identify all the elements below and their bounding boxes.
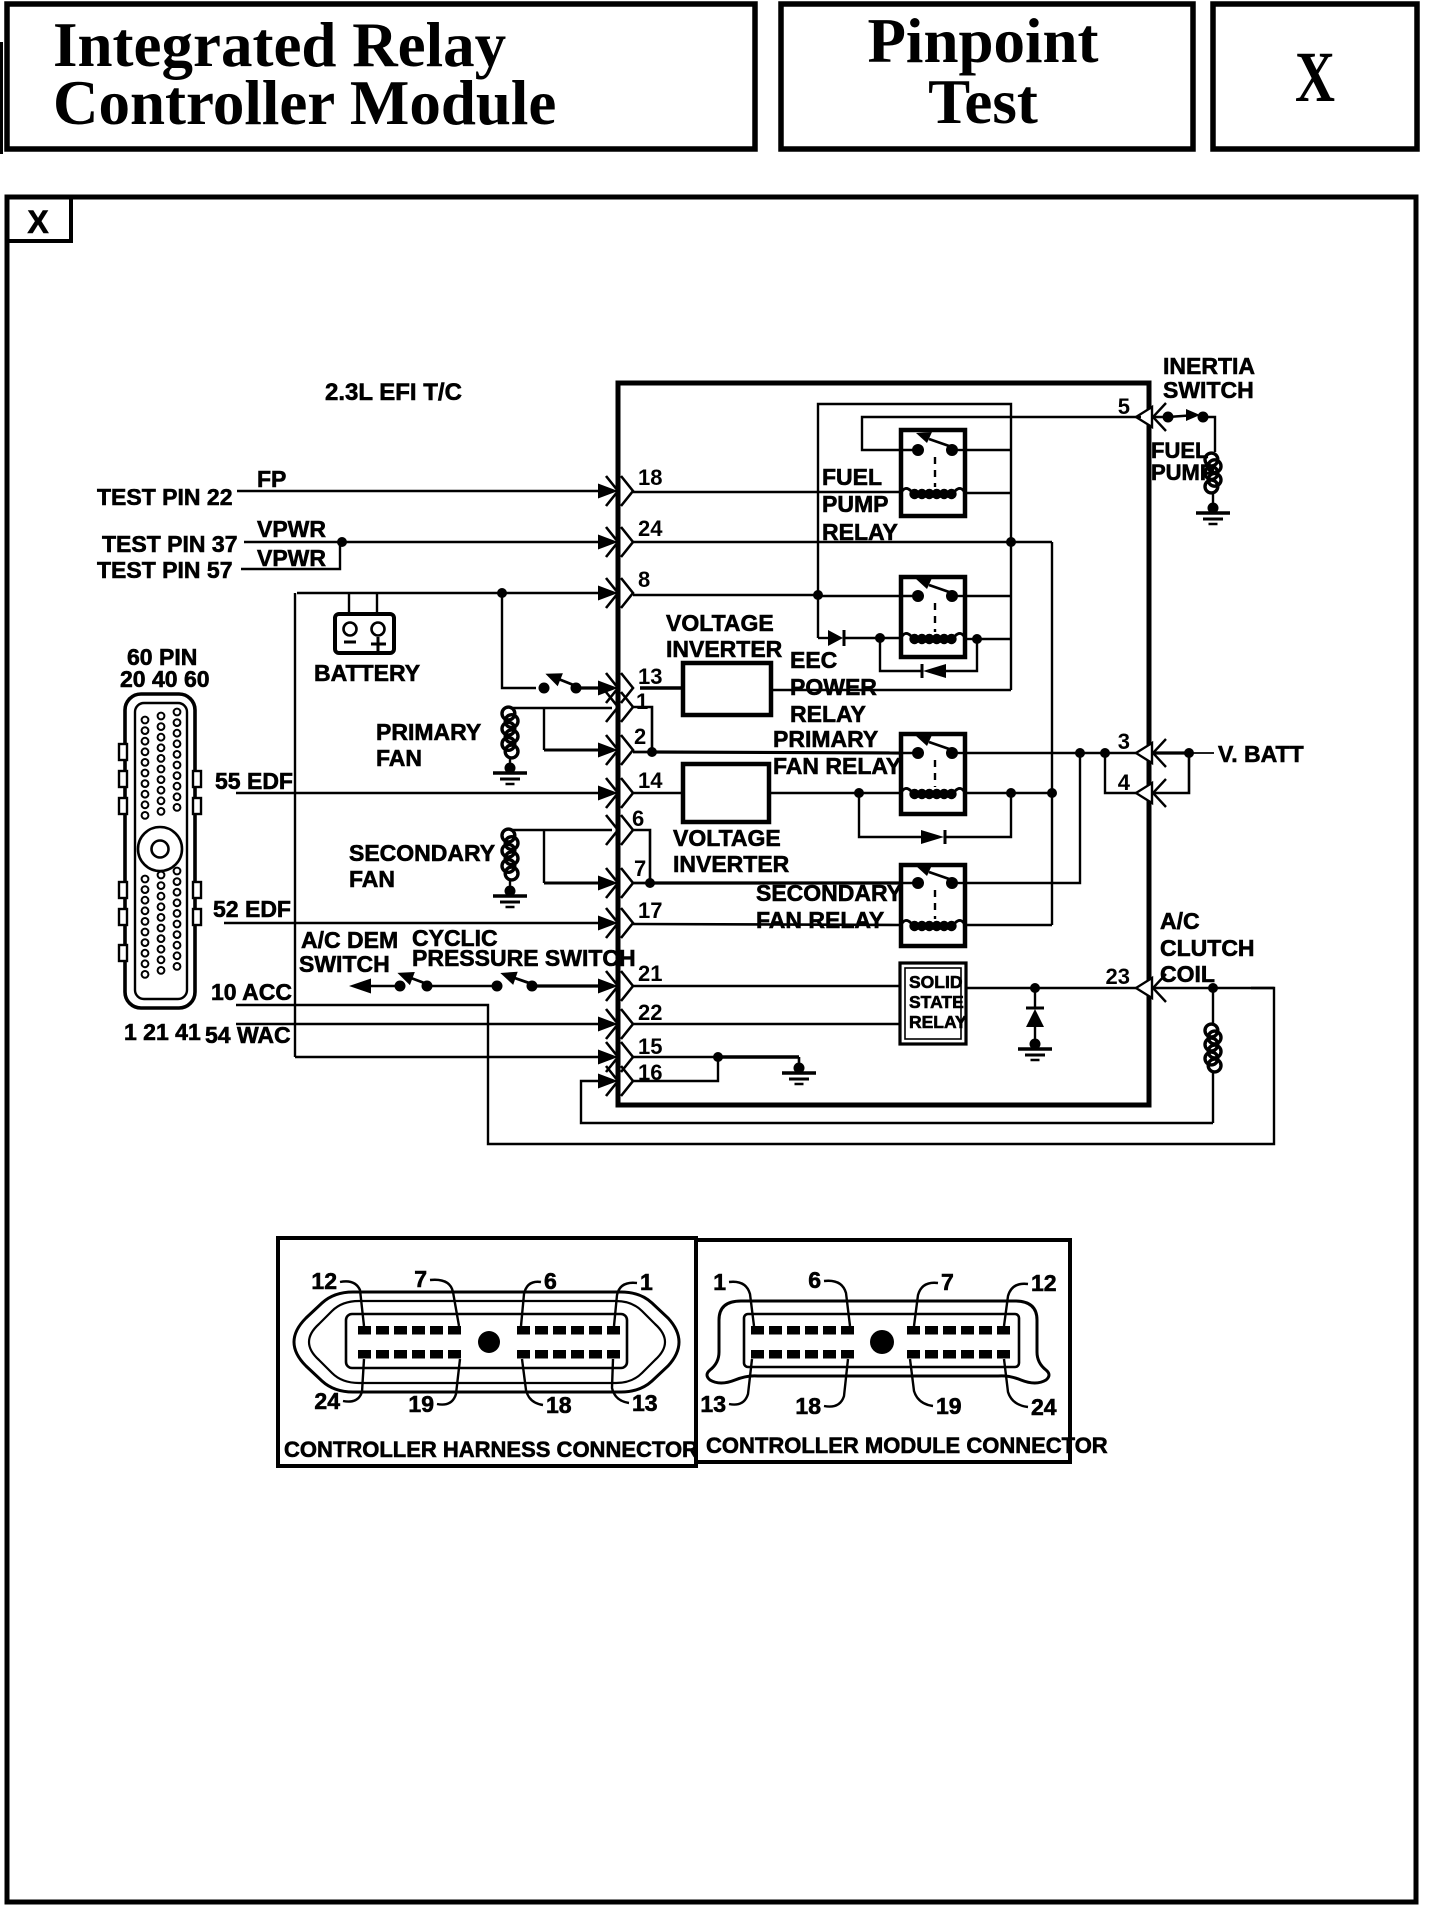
svg-text:CONTROLLER MODULE CONNECTOR: CONTROLLER MODULE CONNECTOR <box>706 1433 1108 1458</box>
svg-text:TEST PIN 37: TEST PIN 37 <box>102 531 237 557</box>
wire FP: TEST PIN 22 to pin 18 <box>237 490 600 492</box>
pin 24 <box>598 516 663 557</box>
wire primary fan bottom lead <box>509 758 511 766</box>
label A/C DEM SWITCH <box>299 927 398 977</box>
svg-text:18: 18 <box>638 465 662 490</box>
svg-text:PUMP: PUMP <box>822 491 888 517</box>
svg-text:COIL: COIL <box>1160 961 1215 987</box>
flyback diode D3 loop under K3 <box>859 793 1011 844</box>
pin 17 <box>598 898 662 938</box>
wire fan jumper pin6 to pin7 <box>543 830 545 883</box>
harness pin label 18 <box>522 1359 572 1418</box>
wire K4 coil right to VPWR bus <box>965 924 1052 926</box>
svg-text:17: 17 <box>638 898 662 923</box>
wire pin 18 FP to fuel pump relay coil <box>633 491 901 493</box>
svg-text:TEST PIN 22: TEST PIN 22 <box>97 484 232 510</box>
wire VPWR: TEST PIN 57 jog up to junction <box>241 542 340 569</box>
svg-text:SOLID: SOLID <box>909 972 962 992</box>
pin 15 <box>598 1034 662 1072</box>
junction dot battery rail <box>497 588 507 598</box>
inertia switch S4 dots <box>1163 412 1209 423</box>
module pin label 24 <box>1004 1359 1057 1420</box>
relay K4 secondary fan <box>901 865 965 946</box>
label SECONDARY FAN <box>349 840 495 892</box>
harness pin label 24 <box>314 1359 364 1414</box>
svg-text:STATE: STATE <box>909 992 964 1012</box>
pin 5 <box>1118 394 1166 431</box>
panel: controller module connector <box>696 1240 1070 1462</box>
svg-text:14: 14 <box>638 768 663 793</box>
wire fuel pump relay top loop <box>818 404 1011 690</box>
wire VPWR: TEST PIN 37 to pin 24 <box>244 541 600 543</box>
svg-text:Pinpoint: Pinpoint <box>867 6 1098 76</box>
primary fan inductor <box>502 707 518 758</box>
svg-text:52 EDF: 52 EDF <box>213 896 291 922</box>
pin 4 <box>1118 770 1166 807</box>
wire K2 contact right to bus <box>965 595 1011 597</box>
clamp diode D4 to ground <box>1026 988 1044 1042</box>
module pin label 7 <box>914 1269 954 1326</box>
svg-text:PRIMARY: PRIMARY <box>376 719 481 745</box>
junction dot V.BATT <box>1184 748 1194 758</box>
wire K1 coil right to bus <box>965 492 1011 494</box>
wire pin 21 to solid state relay <box>633 985 900 988</box>
svg-text:X: X <box>1295 37 1335 117</box>
pin 7 <box>598 856 646 898</box>
svg-text:15: 15 <box>638 1034 662 1059</box>
module pin label 12 <box>1004 1270 1057 1326</box>
wire 10 ACC loop to A/C clutch line <box>236 988 1274 1144</box>
svg-text:24: 24 <box>1031 1394 1057 1420</box>
svg-text:TEST PIN 57: TEST PIN 57 <box>97 557 232 583</box>
svg-text:5: 5 <box>1118 394 1130 419</box>
svg-text:FAN: FAN <box>376 745 422 771</box>
svg-text:BATTERY: BATTERY <box>314 660 420 686</box>
svg-text:2.3L EFI T/C: 2.3L EFI T/C <box>325 379 462 406</box>
module pin label 13 <box>700 1359 752 1417</box>
junction dot K3 coil right <box>1006 788 1016 798</box>
voltage inverter U2 <box>683 764 769 822</box>
title box: Pinpoint Test <box>781 4 1193 149</box>
label VOLTAGE INVERTER (lower) <box>673 825 790 877</box>
wire pin4 jumper vertical <box>1105 753 1136 793</box>
svg-text:7: 7 <box>634 856 646 881</box>
junction dot fan relay bus B <box>1100 748 1110 758</box>
svg-text:X: X <box>27 204 49 240</box>
fuel pump coil <box>1205 453 1221 493</box>
wire 55 EDF to pin 14 <box>236 792 600 794</box>
ground G2 controller signal ground <box>798 1057 801 1066</box>
connector J1 center post <box>138 827 182 871</box>
battery B1 <box>335 614 394 653</box>
module pin label 19 <box>910 1359 962 1419</box>
svg-text:19: 19 <box>936 1393 962 1419</box>
title box: X <box>1213 4 1417 149</box>
wire battery positive stub <box>376 593 378 615</box>
wire EEC relay left contact <box>818 595 901 597</box>
wire pin 2 stub <box>633 751 652 754</box>
pin 6 <box>606 806 644 845</box>
wire inverter U1 output to bus <box>771 689 1011 691</box>
wire solid state relay to pin 23 <box>966 987 1136 989</box>
junction dot clamp diode <box>1030 983 1040 993</box>
wire pin 23 external to clutch coil <box>1151 987 1274 989</box>
svg-text:FUEL: FUEL <box>822 464 882 490</box>
svg-text:18: 18 <box>795 1393 821 1419</box>
svg-text:13: 13 <box>638 664 662 689</box>
svg-text:8: 8 <box>638 567 650 592</box>
label FUEL PUMP (motor) <box>1151 438 1215 485</box>
svg-text:CLUTCH: CLUTCH <box>1160 935 1255 961</box>
scan artifact: left edge bar <box>0 42 3 154</box>
switch S1 contact right dot <box>571 683 582 694</box>
wire K3 contact right to pin 3 <box>965 752 1136 754</box>
wire fuel pump to ground <box>1212 493 1214 506</box>
ground G4 primary fan <box>493 763 527 785</box>
module pin label 6 <box>808 1267 850 1326</box>
svg-text:SWITCH: SWITCH <box>1163 377 1254 403</box>
controller module box outline <box>618 383 1149 1105</box>
svg-text:7: 7 <box>414 1266 427 1292</box>
wire pin 17 to K4 coil <box>633 924 901 925</box>
flyback diode D2 loop under EEC relay <box>880 638 977 678</box>
secondary fan inductor <box>502 829 518 880</box>
wire switch to pin 13 <box>576 686 600 689</box>
wire pin 16 external to clutch ground line <box>581 1081 1213 1123</box>
wire pin 16 jumper <box>633 1057 718 1081</box>
harness pin label 7 <box>414 1266 459 1326</box>
svg-text:PRESSURE SWITCH: PRESSURE SWITCH <box>412 945 636 971</box>
junction dot VPWR at relay bus <box>1006 537 1016 547</box>
svg-text:6: 6 <box>808 1267 821 1293</box>
svg-text:13: 13 <box>632 1390 658 1416</box>
ground G5 secondary fan <box>493 886 527 908</box>
svg-text:FAN RELAY: FAN RELAY <box>773 753 901 779</box>
wire battery junction down to ignition switch <box>502 593 536 688</box>
wire pin 1 jumper to pin 2 <box>633 707 652 752</box>
wire pin 24 VPWR across box <box>633 541 1052 544</box>
module connector body outline <box>707 1301 1049 1383</box>
wire battery rail to pin 8 <box>297 592 600 594</box>
svg-text:18: 18 <box>546 1392 572 1418</box>
inertia switch S4 blade <box>1168 409 1200 421</box>
relay K3 primary fan <box>901 734 965 814</box>
svg-text:SWITCH: SWITCH <box>299 951 390 977</box>
wire pin 15 to ground stub <box>633 1056 718 1058</box>
pin 2 <box>598 724 646 765</box>
module pin label 18 <box>795 1359 848 1419</box>
svg-text:12: 12 <box>311 1268 337 1294</box>
wire fan jumper pin1 to pin2 <box>543 708 545 750</box>
svg-text:10 ACC: 10 ACC <box>211 979 292 1005</box>
svg-text:1: 1 <box>636 689 648 714</box>
label VOLTAGE INVERTER (upper) <box>666 610 783 662</box>
junction dot U2 output <box>854 788 864 798</box>
svg-text:VOLTAGE: VOLTAGE <box>673 825 781 851</box>
label PRIMARY FAN <box>376 719 481 771</box>
svg-text:PRIMARY: PRIMARY <box>773 726 878 752</box>
label SECONDARY FAN RELAY <box>756 880 902 933</box>
harness connector body outline <box>294 1292 679 1392</box>
svg-text:3: 3 <box>1118 729 1130 754</box>
svg-text:SECONDARY: SECONDARY <box>349 840 495 866</box>
svg-text:RELAY: RELAY <box>822 519 898 545</box>
junction dot EEC coil right <box>972 634 982 644</box>
label INERTIA SWITCH <box>1163 353 1255 403</box>
harness connector pins <box>358 1326 620 1359</box>
svg-text:6: 6 <box>632 806 644 831</box>
svg-text:55 EDF: 55 EDF <box>215 768 293 794</box>
wire secondary fan top to pin 6 <box>510 829 612 831</box>
relay K2 EEC power <box>901 577 965 657</box>
label CYCLIC PRESSURE SWITCH <box>412 925 636 971</box>
svg-text:2: 2 <box>634 724 646 749</box>
svg-text:INVERTER: INVERTER <box>666 636 783 662</box>
junction dot pin 7 <box>645 878 655 888</box>
svg-text:1 21 41: 1 21 41 <box>124 1019 201 1045</box>
pin 18 <box>598 465 662 506</box>
wire VPWR vertical feed to relay coils <box>1051 542 1053 925</box>
voltage inverter U1 <box>683 663 771 715</box>
svg-text:54 WAC: 54 WAC <box>205 1022 291 1048</box>
wire pin 13 to inverter U1 <box>640 686 683 689</box>
wire inverter U2 output to K3 coil <box>769 792 901 794</box>
svg-text:Test: Test <box>928 67 1038 137</box>
wire pin 2 to primary fan relay contact <box>652 752 901 753</box>
svg-text:Controller Module: Controller Module <box>53 68 556 138</box>
svg-text:19: 19 <box>408 1391 434 1417</box>
wire V.BATT down to pin 4 <box>1151 753 1189 793</box>
wire between switches <box>427 985 497 988</box>
label EEC POWER RELAY <box>790 647 877 727</box>
pin 21 <box>598 961 662 1001</box>
switch S2 blade <box>397 972 427 985</box>
corner tab box X <box>7 197 71 241</box>
wire 54 WAC to pin 22 <box>236 1023 600 1026</box>
wire K1 contact right to bus <box>965 449 1011 451</box>
clutch coil <box>1205 1024 1221 1072</box>
svg-text:7: 7 <box>941 1269 954 1295</box>
label A/C CLUTCH COIL <box>1160 908 1255 987</box>
switch S3 cyclic pressure contact dots <box>492 981 538 992</box>
wire pin 5 to fuel pump relay common <box>862 417 1141 450</box>
svg-text:VOLTAGE: VOLTAGE <box>666 610 774 636</box>
svg-text:VPWR: VPWR <box>257 516 326 542</box>
wire pin 14 to inverter U2 <box>633 792 683 794</box>
ground G1 under clamp diode <box>1018 1039 1052 1061</box>
svg-text:22: 22 <box>638 1000 662 1025</box>
wire primary fan top to pin 1 <box>510 707 612 709</box>
module connector pins <box>751 1326 1010 1359</box>
svg-text:1: 1 <box>713 1269 726 1295</box>
svg-text:V. BATT: V. BATT <box>1218 741 1304 767</box>
svg-text:20 40 60: 20 40 60 <box>120 666 210 692</box>
label FUEL PUMP RELAY <box>822 464 898 545</box>
harness pin label 6 <box>521 1268 557 1326</box>
junction dot pin8 rail <box>813 590 823 600</box>
wire 52 EDF to pin 17 <box>224 922 600 925</box>
wire EEC relay vertical left drop <box>817 595 819 638</box>
wire diode to EEC coil <box>880 637 901 639</box>
wire clutch coil top lead <box>1212 988 1214 1024</box>
svg-text:24: 24 <box>638 516 663 541</box>
wire K2 coil right <box>965 638 977 640</box>
wire EEC coil to bus vertical <box>977 638 1011 640</box>
title box: Integrated Relay Controller Module <box>7 4 755 149</box>
pin 16 <box>598 1060 662 1096</box>
wire pin 7 stub <box>633 882 650 885</box>
svg-text:EEC: EEC <box>790 647 837 673</box>
junction dot EEC coil left <box>875 633 885 643</box>
pin 22 <box>598 1000 662 1039</box>
solid state relay K5 <box>900 963 967 1044</box>
svg-text:1: 1 <box>640 1269 653 1295</box>
pin 3 <box>1118 729 1166 767</box>
switch S1 contact left dot <box>539 683 550 694</box>
svg-text:VPWR: VPWR <box>257 545 326 571</box>
svg-text:RELAY: RELAY <box>790 701 866 727</box>
connector J1 pin holes <box>142 709 181 978</box>
wire pin 22 to solid state relay <box>633 1023 900 1026</box>
wire fan jumper to pin 7 lead <box>544 882 600 885</box>
svg-text:A/C DEM: A/C DEM <box>301 927 398 953</box>
wire pin 6 jumper to pin 7 <box>633 830 650 883</box>
pin 13 <box>598 664 662 703</box>
svg-text:FAN: FAN <box>349 866 395 892</box>
wire left rail vertical (battery to pin 15) <box>294 593 296 1057</box>
wire K3 coil right to VPWR bus <box>965 792 1052 794</box>
svg-text:CONTROLLER HARNESS CONNECTOR: CONTROLLER HARNESS CONNECTOR <box>284 1437 698 1462</box>
svg-text:INERTIA: INERTIA <box>1163 353 1255 379</box>
svg-text:21: 21 <box>638 961 662 986</box>
wire pin 8 to EEC relay contact rail <box>633 594 818 596</box>
wire cyclic pressure switch to pin 21 <box>532 984 600 987</box>
svg-text:FP: FP <box>257 466 286 492</box>
wire inertia switch to fuel pump <box>1203 417 1215 452</box>
svg-text:A/C: A/C <box>1160 908 1200 934</box>
pin 8 <box>598 567 650 608</box>
wire pin 5 external to inertia switch <box>1151 416 1168 418</box>
junction dot fan relay bus A <box>1075 748 1085 758</box>
svg-text:6: 6 <box>544 1268 557 1294</box>
svg-text:24: 24 <box>314 1388 340 1414</box>
relay K1 fuel pump <box>901 430 965 516</box>
pin 1 <box>606 689 648 722</box>
svg-text:13: 13 <box>700 1391 726 1417</box>
harness pin label 19 <box>408 1359 460 1417</box>
junction dot clutch coil top <box>1208 983 1218 993</box>
panel: controller harness connector <box>278 1238 696 1466</box>
switch S3 blade <box>500 972 532 985</box>
svg-text:FAN RELAY: FAN RELAY <box>756 907 884 933</box>
svg-text:SECONDARY: SECONDARY <box>756 880 902 906</box>
svg-text:12: 12 <box>1031 1270 1057 1296</box>
pin 23 <box>1106 964 1166 1002</box>
wire pin 3 external to V.BATT <box>1151 751 1189 754</box>
wire clutch coil bottom lead <box>1212 1072 1214 1123</box>
junction dot pin 2 <box>647 747 657 757</box>
svg-text:POWER: POWER <box>790 674 877 700</box>
wire secondary contact drop <box>965 753 1080 883</box>
svg-text:23: 23 <box>1106 964 1130 989</box>
junction dot VPWR <box>337 537 347 547</box>
switch S1 blade <box>545 673 576 686</box>
module pin label 1 <box>713 1269 754 1326</box>
wire ground stub <box>718 1055 799 1059</box>
wire left rail corner to pin 15 <box>295 1056 600 1058</box>
junction dot VPWR bus at K3 <box>1047 788 1057 798</box>
connector J1 60-pin body <box>119 694 201 1008</box>
wire battery negative stub <box>348 593 350 615</box>
switch S2 A/C DEM contact dots <box>395 981 433 992</box>
junction dot pins 15/16 <box>713 1052 723 1062</box>
label PRIMARY FAN RELAY <box>773 726 901 779</box>
diode D1 EEC feed <box>818 630 880 646</box>
pin 14 <box>598 768 663 808</box>
harness pin label 1 <box>614 1269 653 1326</box>
svg-text:RELAY: RELAY <box>909 1012 967 1032</box>
arrow A/C DEM feed (points left) <box>349 979 400 994</box>
harness pin label 13 <box>612 1359 658 1416</box>
svg-text:4: 4 <box>1118 770 1131 795</box>
ground G3 fuel pump <box>1196 503 1230 525</box>
harness pin label 12 <box>311 1268 364 1326</box>
wire secondary fan bottom lead <box>509 880 511 889</box>
wire fan jumper to pin 2 lead <box>544 749 600 752</box>
svg-text:INVERTER: INVERTER <box>673 851 790 877</box>
wire pin 7 to secondary fan relay contact <box>650 881 901 884</box>
